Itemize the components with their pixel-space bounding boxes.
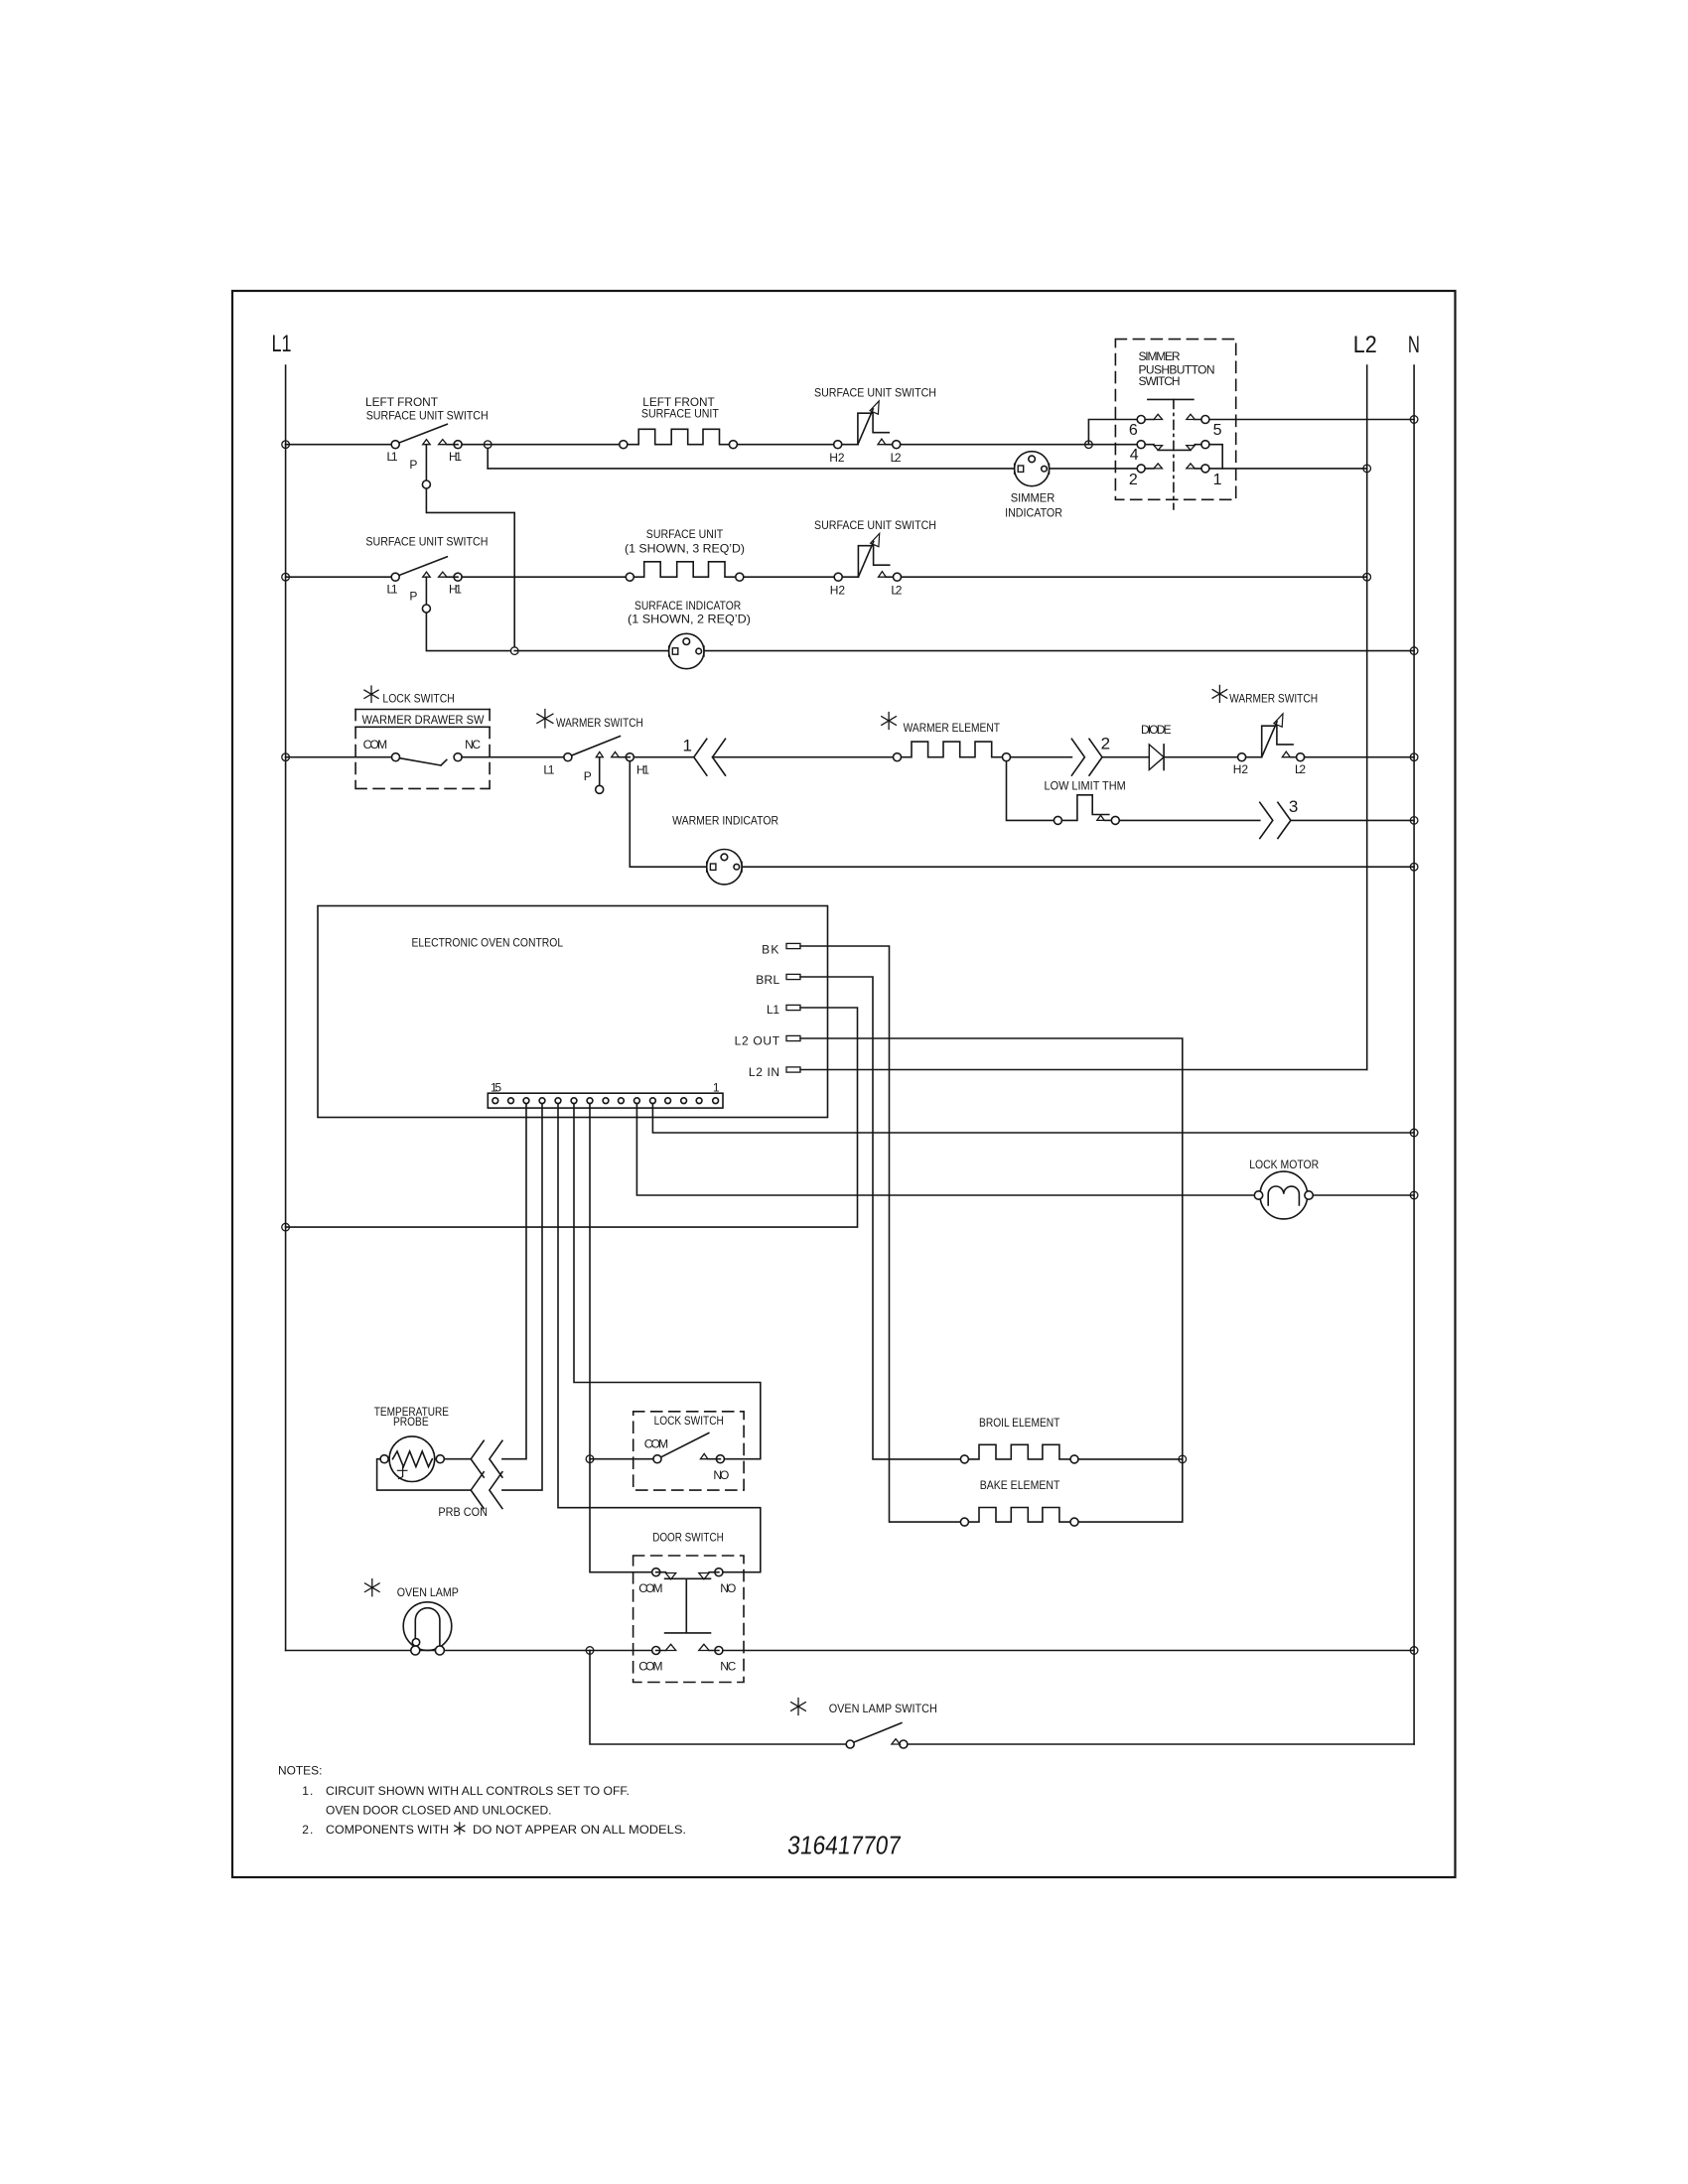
svg-text:L2: L2	[891, 584, 902, 598]
pin L2 OUT stub	[735, 1034, 800, 1048]
svg-text:NC: NC	[465, 738, 481, 751]
wire simmer branch (y=471.9)	[488, 468, 1137, 470]
svg-text:LOCK MOTOR: LOCK MOTOR	[1249, 1158, 1319, 1171]
switch: SURFACE UNIT SWITCH (row1 right, infinite heat control)	[814, 386, 936, 465]
svg-text:SIMMER: SIMMER	[1011, 490, 1055, 504]
junction N bus row3	[1410, 753, 1418, 761]
svg-text:SURFACE UNIT: SURFACE UNIT	[641, 406, 720, 420]
svg-text:DIODE: DIODE	[1141, 723, 1172, 737]
wire pin L1 to L1 bus	[286, 1008, 858, 1227]
switch: SURFACE UNIT SWITCH (row2 right, infinite heat control)	[814, 518, 936, 598]
diode	[1141, 723, 1172, 770]
svg-text:SURFACE UNIT SWITCH: SURFACE UNIT SWITCH	[814, 386, 936, 400]
svg-text:P: P	[584, 769, 592, 783]
wire row3 H1 to connector 1	[633, 756, 694, 758]
indicator: SIMMER INDICATOR	[1005, 452, 1062, 520]
svg-text:H1: H1	[449, 583, 462, 597]
switch: WARMER SWITCH (left)	[543, 716, 649, 794]
asterisk (warmer element)	[882, 713, 897, 730]
junction N bus indicator row	[1410, 647, 1418, 655]
asterisk (oven lamp)	[365, 1579, 380, 1596]
switch: WARMER SWITCH (right, infinite heat control)	[1229, 691, 1318, 776]
junction N bus warmer indicator row	[1410, 863, 1418, 871]
svg-text:COM: COM	[363, 738, 388, 751]
svg-text:SURFACE UNIT: SURFACE UNIT	[646, 527, 724, 541]
wire pin9 junction to lock switch COM	[590, 1458, 653, 1460]
pin L2 IN stub	[749, 1065, 800, 1079]
wire connector 2 to diode	[1102, 756, 1149, 758]
wire pin BK to bake element	[800, 946, 960, 1522]
wire door switch NC to N bus	[723, 1650, 1414, 1652]
svg-text:OVEN LAMP: OVEN LAMP	[397, 1585, 459, 1599]
svg-text:CIRCUIT SHOWN WITH ALL CONTROL: CIRCUIT SHOWN WITH ALL CONTROLS SET TO O…	[326, 1784, 630, 1798]
svg-text:H1: H1	[449, 450, 462, 464]
svg-text:5: 5	[1213, 422, 1222, 439]
junction N bus low-limit row	[1410, 817, 1418, 825]
asterisk (warmer switch left)	[537, 710, 553, 729]
svg-text:P: P	[409, 458, 417, 472]
svg-text:L1: L1	[387, 450, 398, 464]
connector plug 1 (double chevron left)	[683, 736, 726, 775]
junction L1 bus EOC row	[282, 1223, 290, 1231]
junction row3 on L1 bus	[282, 753, 290, 761]
net N bus wire	[1413, 365, 1415, 1744]
wire diode to H2	[1164, 756, 1262, 758]
svg-text:H1: H1	[636, 763, 649, 777]
wire row2 L2-term to L2 bus	[902, 576, 1367, 578]
asterisk (lock switch)	[364, 686, 378, 703]
wire pin L2 IN from L2 bus	[800, 1069, 1367, 1071]
svg-text:COM: COM	[638, 1581, 662, 1595]
wire pin 10 to lock switch NO	[574, 1104, 761, 1459]
svg-text:1.: 1.	[302, 1784, 313, 1798]
wire row3 L2-term to N bus	[1305, 756, 1415, 758]
element: BAKE ELEMENT	[960, 1478, 1078, 1526]
wire row3 NC to warmer switch	[462, 756, 564, 758]
switch: WARMER DRAWER SW	[355, 710, 490, 789]
wire lock motor to N bus	[1313, 1194, 1414, 1196]
svg-text:3: 3	[1289, 797, 1298, 816]
svg-text:H2: H2	[830, 584, 846, 598]
svg-text:ELECTRONIC OVEN CONTROL: ELECTRONIC OVEN CONTROL	[412, 936, 564, 950]
sensor: TEMPERATURE PROBE	[374, 1405, 449, 1482]
connector plug PRB top (double chevron left)	[471, 1440, 502, 1477]
junction lamp-switch tap	[586, 1647, 594, 1655]
connector strip J1 (pins 15..1)	[488, 1080, 723, 1108]
label DOOR SWITCH	[652, 1531, 724, 1545]
thermostat: LOW LIMIT THM	[1045, 778, 1126, 824]
wire lamp-switch tap down and row	[590, 1651, 846, 1745]
svg-text:SURFACE INDICATOR: SURFACE INDICATOR	[634, 599, 741, 613]
svg-text:WARMER ELEMENT: WARMER ELEMENT	[904, 721, 1001, 735]
wire pin 6 to lock motor	[636, 1104, 1253, 1195]
wire probe bottom loop to connector	[377, 1459, 472, 1490]
wire row1 L1-bus to switch	[286, 444, 392, 446]
wire L1 bus to door switch COM (bottom row)	[286, 1650, 652, 1652]
svg-text:H2: H2	[1233, 762, 1249, 776]
junction N bus lock motor row	[1410, 1191, 1418, 1199]
element: SURFACE UNIT (1 SHOWN, 3 REQ'D)	[625, 527, 745, 581]
svg-text:OVEN DOOR CLOSED AND UNLOCKED.: OVEN DOOR CLOSED AND UNLOCKED.	[326, 1804, 552, 1818]
junction indicator feed	[510, 647, 518, 655]
svg-text:P: P	[409, 590, 417, 604]
IC box: ELECTRONIC OVEN CONTROL U1	[318, 906, 828, 1118]
indicator: WARMER INDICATOR	[672, 814, 778, 885]
svg-text:LOCK SWITCH: LOCK SWITCH	[654, 1414, 724, 1428]
element: LEFT FRONT SURFACE UNIT	[620, 395, 738, 449]
svg-text:INDICATOR: INDICATOR	[1005, 506, 1062, 520]
svg-text:316417707: 316417707	[786, 1831, 903, 1860]
svg-text:COMPONENTS WITH: COMPONENTS WITH	[326, 1823, 449, 1837]
wire pushbutton 5 to N bus	[1209, 419, 1414, 421]
junction row2 on L1 bus	[282, 573, 290, 581]
svg-text:COM: COM	[644, 1437, 668, 1451]
element: WARMER ELEMENT	[894, 721, 1011, 761]
wire connector 1 to warmer element	[713, 756, 898, 758]
svg-text:4: 4	[1130, 447, 1139, 464]
svg-text:DO NOT APPEAR ON ALL MODELS.: DO NOT APPEAR ON ALL MODELS.	[473, 1823, 686, 1837]
switch: LOCK SWITCH	[633, 1412, 744, 1490]
svg-text:DOOR SWITCH: DOOR SWITCH	[652, 1531, 724, 1545]
svg-text:OVEN LAMP SWITCH: OVEN LAMP SWITCH	[829, 1702, 937, 1715]
wire lamp switch to N bus corner	[908, 1743, 1414, 1745]
wire pin 5 to N bus	[652, 1104, 1414, 1133]
wire probe top to connector	[444, 1458, 471, 1460]
net N label	[1408, 332, 1420, 358]
svg-text:2: 2	[1101, 735, 1110, 753]
junction row1 pushbutton 6-branch	[1085, 441, 1093, 449]
svg-text:NO: NO	[720, 1581, 736, 1595]
svg-text:COM: COM	[638, 1660, 662, 1674]
note 2	[302, 1823, 686, 1837]
svg-text:L1: L1	[272, 331, 292, 357]
svg-text:BK: BK	[762, 942, 778, 956]
svg-text:L2 IN: L2 IN	[749, 1065, 779, 1079]
pin BK stub	[762, 942, 800, 956]
net L2 label	[1353, 332, 1377, 358]
pin L1 stub	[767, 1003, 800, 1017]
svg-text:1: 1	[1213, 472, 1222, 488]
switch: OVEN LAMP SWITCH	[829, 1702, 937, 1748]
svg-text:L2: L2	[1353, 332, 1377, 358]
svg-text:L1: L1	[387, 583, 398, 597]
net L2 bus wire	[1366, 365, 1368, 1070]
svg-text:L2: L2	[891, 451, 902, 465]
wire row1 H1 to element	[462, 444, 624, 446]
switch: SURFACE UNIT SWITCH (row2 left)	[365, 535, 510, 651]
motor: LOCK MOTOR	[1249, 1158, 1319, 1219]
wire row2 element to H2	[744, 576, 859, 578]
svg-text:L2: L2	[1295, 762, 1306, 776]
svg-text:1: 1	[713, 1080, 720, 1094]
svg-text:LOW LIMIT THM: LOW LIMIT THM	[1045, 778, 1126, 792]
svg-text:(1 SHOWN, 3 REQ’D): (1 SHOWN, 3 REQ’D)	[625, 541, 745, 555]
wire indicator row to N bus	[514, 650, 1414, 652]
svg-text:SURFACE UNIT SWITCH: SURFACE UNIT SWITCH	[814, 518, 936, 532]
wire pin 11 to door switch NO	[558, 1104, 761, 1572]
svg-text:L1: L1	[767, 1003, 779, 1017]
connector plug 3 (double chevron right)	[1260, 797, 1299, 838]
switch: SIMMER PUSHBUTTON SWITCH	[1115, 340, 1235, 509]
wire pin 9 to door switch COM	[590, 1104, 652, 1572]
svg-text:BROIL ELEMENT: BROIL ELEMENT	[979, 1416, 1060, 1430]
switch: DOOR SWITCH	[633, 1556, 744, 1683]
svg-text:SURFACE UNIT SWITCH: SURFACE UNIT SWITCH	[366, 408, 489, 422]
switch: LEFT FRONT SURFACE UNIT SWITCH	[365, 395, 514, 646]
junction L2 bus row2	[1363, 573, 1371, 581]
svg-text:SURFACE UNIT SWITCH: SURFACE UNIT SWITCH	[365, 535, 488, 549]
svg-text:NOTES:: NOTES:	[278, 1763, 322, 1777]
svg-text:WARMER SWITCH: WARMER SWITCH	[556, 716, 643, 730]
svg-text:LEFT FRONT: LEFT FRONT	[365, 395, 439, 409]
svg-text:LOCK SWITCH: LOCK SWITCH	[382, 691, 454, 705]
wire row3 L1-bus to warmer drawer sw	[286, 756, 392, 758]
junction N bus door row	[1410, 1647, 1418, 1655]
wire broil element to L2OUT riser	[1078, 1458, 1183, 1460]
junction N bus pin5 row	[1410, 1129, 1418, 1137]
wire pin L2 OUT to elements	[800, 1038, 1183, 1522]
svg-text:PRB CON: PRB CON	[438, 1505, 488, 1519]
wire pin BRL to broil element	[800, 977, 960, 1459]
svg-text:SWITCH: SWITCH	[1139, 374, 1181, 388]
svg-text:NC: NC	[720, 1660, 736, 1674]
junction broil row on L2OUT riser	[1179, 1455, 1187, 1463]
label LOCK SWITCH (warmer drawer)	[382, 691, 454, 705]
pin BRL stub	[756, 973, 800, 987]
border frame	[232, 291, 1456, 1877]
note 1	[302, 1784, 630, 1818]
svg-text:SIMMER: SIMMER	[1139, 349, 1181, 363]
asterisk (warmer switch right)	[1212, 685, 1227, 702]
element: BROIL ELEMENT	[960, 1416, 1078, 1463]
connector plug 2 (double chevron right)	[1071, 735, 1110, 776]
wire row2 H1 to element	[462, 576, 630, 578]
wire row2 L1-bus to switch	[286, 576, 392, 578]
svg-text:L1: L1	[543, 763, 554, 777]
part number 316417707	[786, 1831, 903, 1860]
wire pushbutton 1 to L2 bus	[1209, 468, 1367, 470]
connector plug PRB CON bottom (double chevron left)	[438, 1472, 502, 1519]
svg-text:6: 6	[1129, 422, 1138, 439]
svg-text:PROBE: PROBE	[393, 1415, 429, 1429]
svg-text:1: 1	[683, 736, 692, 754]
svg-text:2: 2	[1129, 472, 1138, 488]
svg-text:15: 15	[491, 1080, 501, 1094]
svg-text:BRL: BRL	[756, 973, 779, 987]
wire H1 tap down and indicator row to N bus	[630, 761, 1414, 868]
svg-text:WARMER INDICATOR: WARMER INDICATOR	[672, 814, 778, 828]
wire pin 13 to probe top	[502, 1104, 526, 1459]
label NOTES heading	[278, 1763, 322, 1777]
indicator: SURFACE INDICATOR (1 SHOWN, 2 REQ'D)	[628, 599, 751, 669]
asterisk (oven lamp switch)	[791, 1699, 806, 1715]
svg-text:NO: NO	[713, 1468, 729, 1482]
wire row1 element to H2	[737, 444, 858, 446]
junction row1 simmer tap	[484, 441, 492, 469]
junction row1 on L1 bus	[282, 441, 290, 449]
junction pin9 lock-switch tap	[586, 1455, 594, 1463]
wire branch to pushbutton terminal 6	[1088, 420, 1137, 445]
svg-text:BAKE ELEMENT: BAKE ELEMENT	[980, 1478, 1060, 1492]
svg-text:WARMER SWITCH: WARMER SWITCH	[1229, 691, 1318, 705]
wire pushbutton 4 to 1 link	[1209, 445, 1222, 469]
net L1 label	[272, 331, 292, 357]
svg-text:2.: 2.	[302, 1823, 313, 1837]
lamp: OVEN LAMP	[397, 1585, 459, 1655]
svg-text:L2 OUT: L2 OUT	[735, 1034, 780, 1048]
wire low limit to connector 3	[1119, 819, 1260, 821]
wire connector 3 to N bus	[1291, 819, 1414, 821]
wire pin 12 to probe bottom	[502, 1104, 542, 1491]
wire row1 L2-term to pushbutton terminal 4	[901, 444, 1137, 446]
junction N bus row 6-5	[1410, 416, 1418, 424]
wire element tap down to low limit	[1007, 761, 1055, 821]
svg-text:(1 SHOWN, 2 REQ’D): (1 SHOWN, 2 REQ’D)	[628, 613, 751, 626]
svg-text:H2: H2	[829, 451, 845, 465]
svg-text:N: N	[1408, 332, 1420, 358]
net L1 bus wire	[285, 365, 287, 1651]
wire element to connector 2	[1011, 756, 1072, 758]
svg-text:WARMER DRAWER SW: WARMER DRAWER SW	[362, 713, 486, 727]
junction L2 bus simmer row	[1363, 465, 1371, 473]
